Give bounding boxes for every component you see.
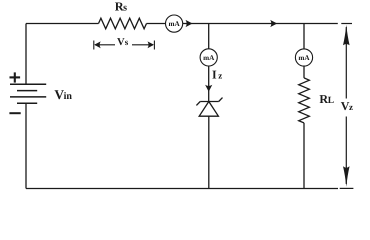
- svg-text:mA: mA: [203, 54, 215, 62]
- svg-text:I: I: [212, 68, 217, 82]
- svg-text:z: z: [349, 102, 353, 112]
- svg-text:mA: mA: [169, 20, 181, 28]
- svg-text:in: in: [64, 91, 73, 102]
- svg-text:s: s: [125, 37, 129, 47]
- svg-text:L: L: [328, 96, 334, 106]
- svg-text:V: V: [117, 37, 125, 48]
- svg-text:s: s: [123, 3, 127, 14]
- svg-text:mA: mA: [298, 54, 310, 62]
- svg-text:z: z: [218, 71, 222, 81]
